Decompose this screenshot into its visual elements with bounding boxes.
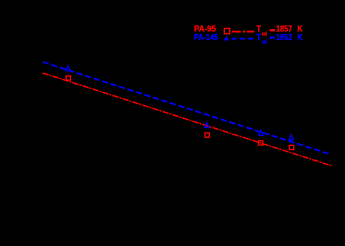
svg-text:sol: sol [262, 40, 268, 46]
svg-text:K: K [297, 32, 303, 42]
svg-text:PA-145: PA-145 [194, 32, 218, 42]
svg-text:1852: 1852 [276, 32, 292, 42]
svg-text:sol: sol [262, 32, 268, 38]
